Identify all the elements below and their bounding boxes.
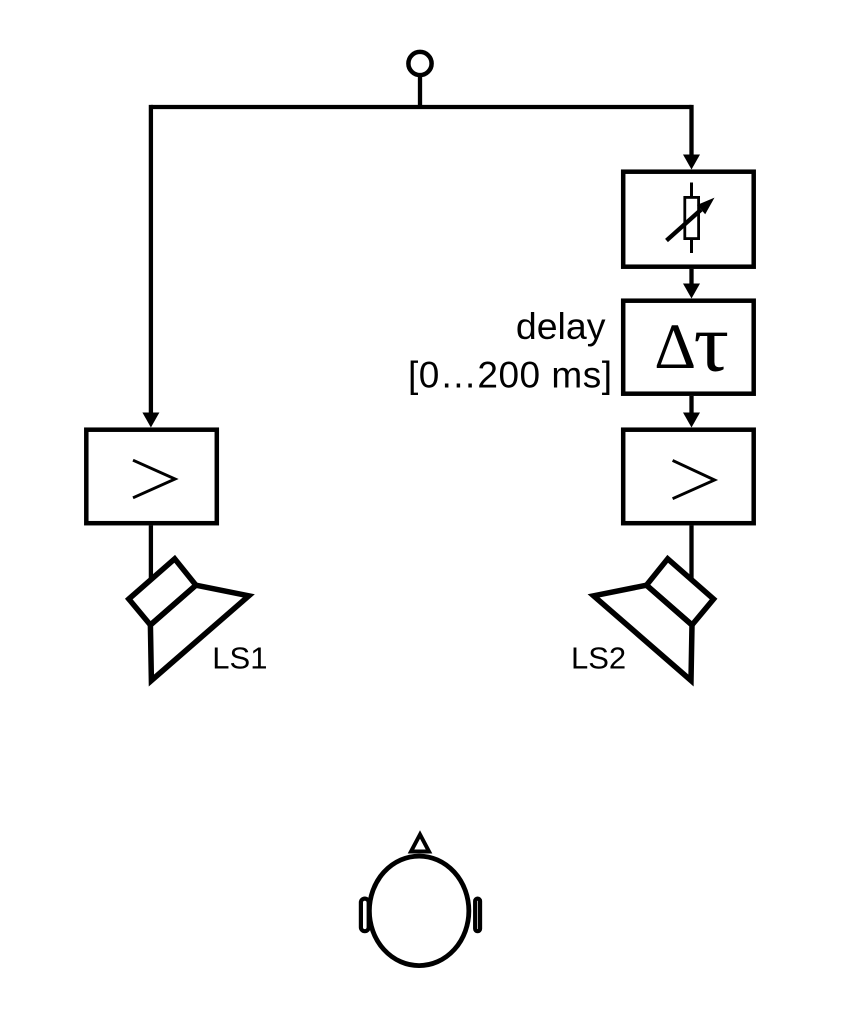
amplifier U2 xyxy=(623,430,754,524)
amplifier U1 xyxy=(86,430,217,524)
wire left branch vertical xyxy=(149,105,153,414)
wire horizontal bus xyxy=(151,105,692,109)
wire from terminal to bus xyxy=(418,75,422,109)
wire delay to right amplifier xyxy=(689,396,693,413)
left ear xyxy=(361,899,369,932)
arrowhead into attenuator xyxy=(683,155,700,170)
wire attenuator to delay xyxy=(689,269,693,286)
delay element U3 xyxy=(623,297,754,394)
arrowhead into right amplifier xyxy=(683,413,700,428)
right ear xyxy=(475,899,480,932)
arrowhead into delay xyxy=(683,284,700,299)
loudspeaker LS1 xyxy=(129,559,249,681)
input terminal xyxy=(408,52,431,75)
loudspeaker LS2 xyxy=(594,559,714,681)
listener head xyxy=(369,856,469,966)
wire amplifier U2 to LS2 xyxy=(689,526,693,581)
wire amplifier U1 to LS1 xyxy=(149,526,153,580)
variable attenuator xyxy=(623,172,754,267)
svg-text:[0…200 ms]: [0…200 ms] xyxy=(408,354,612,395)
arrowhead into left amplifier xyxy=(142,413,159,428)
wire right branch vertical xyxy=(689,105,693,156)
svg-text:τ: τ xyxy=(694,297,730,389)
svg-text:delay: delay xyxy=(516,305,606,347)
nose xyxy=(411,835,429,852)
svg-text:Δ: Δ xyxy=(654,311,696,383)
svg-text:LS2: LS2 xyxy=(571,641,626,676)
svg-text:LS1: LS1 xyxy=(212,641,267,676)
